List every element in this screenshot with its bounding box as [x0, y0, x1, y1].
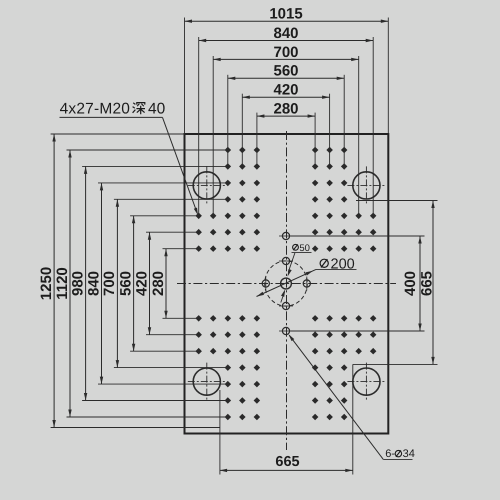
svg-text:400: 400 — [402, 271, 419, 296]
svg-text:420: 420 — [273, 82, 298, 99]
extension line plate right corner — [387, 18, 389, 135]
extension line row y=318.3 — [163, 317, 199, 319]
left dimension 700 — [101, 199, 119, 367]
svg-text:200: 200 — [331, 256, 355, 272]
extension line row y=232.2 — [146, 231, 199, 233]
left dimension 280 — [150, 249, 168, 319]
Ø34 hole on bolt circle right — [303, 280, 310, 287]
leader Ø50 lower — [281, 289, 285, 302]
svg-text:665: 665 — [275, 454, 299, 470]
extension line col x=213.2 — [212, 56, 214, 216]
guide hole circle top-left — [188, 166, 226, 204]
svg-text:665: 665 — [419, 271, 436, 296]
extension line row y=215.8 — [130, 215, 199, 217]
bolt circle Ø200 (dashed) — [265, 261, 308, 306]
left dimension 840 — [85, 183, 103, 384]
svg-text:4x27-M20: 4x27-M20 — [60, 100, 131, 117]
guide hole circle bottom-right — [347, 363, 385, 401]
plate outline (platen) — [185, 134, 389, 434]
svg-text:560: 560 — [273, 63, 298, 80]
extension line lower Ø50 to 400 — [291, 330, 425, 332]
extension line row y=400.5 — [82, 400, 228, 402]
extension line col x=329.6 — [329, 94, 331, 167]
svg-text:40: 40 — [148, 100, 166, 117]
horizontal centerline — [177, 283, 396, 285]
svg-text:280: 280 — [273, 101, 298, 118]
extension line col x=358.7 — [358, 56, 360, 216]
leader Ø50 upper — [288, 253, 296, 277]
extension line row y=248.7 — [163, 248, 199, 250]
tick on right Ø34 hole — [306, 277, 308, 291]
svg-text:420: 420 — [133, 271, 150, 296]
tick on top Ø34 hole — [279, 260, 293, 262]
tick on left Ø34 hole — [265, 277, 267, 291]
top dimension 560 — [228, 63, 344, 80]
label 4x27-M20 deep 40 — [60, 100, 166, 117]
Ø34 hole on bolt circle bottom — [282, 302, 289, 309]
leader Ø200 diameter line — [257, 269, 317, 296]
left dimension 980 — [69, 166, 87, 400]
svg-text:1250: 1250 — [38, 267, 55, 300]
ejector hole upper Ø50 — [282, 232, 289, 239]
left dimension 1250 — [38, 134, 56, 428]
tick on upper Ø50 hole — [279, 235, 293, 237]
tick on lower Ø50 hole — [279, 330, 293, 332]
extension line row y=150.0 — [67, 149, 228, 151]
extension tick 665 bottom vertical — [352, 364, 354, 433]
extension line col x=198.7 — [198, 37, 200, 216]
svg-text:700: 700 — [101, 271, 118, 296]
extension line row y=199.3 — [114, 198, 228, 200]
Ø34 hole on bolt circle top — [282, 257, 289, 264]
svg-text:34: 34 — [403, 448, 415, 460]
label 6-Ø34 — [383, 448, 415, 460]
extension line col x=227.8 — [227, 75, 229, 167]
guide hole circle bottom-left — [188, 363, 226, 401]
svg-text:980: 980 — [69, 271, 86, 296]
left dimension 560 — [117, 216, 135, 351]
extension line bottom 665 left — [219, 390, 221, 475]
extension line row y=384.1 — [98, 383, 228, 385]
tick on bottom Ø34 hole — [279, 305, 293, 307]
svg-text:840: 840 — [85, 271, 102, 296]
top dimension 420 — [242, 82, 329, 99]
extension line row y=417.0 — [67, 416, 228, 418]
svg-text:6-: 6- — [385, 448, 395, 460]
right dimension 400 — [402, 236, 422, 331]
top dimension 280 — [257, 101, 315, 118]
svg-text:560: 560 — [117, 271, 134, 296]
left dimension 420 — [133, 232, 151, 335]
extension line bottom 665 right — [352, 434, 354, 475]
top dimension 1015 — [185, 6, 389, 23]
extension line col x=242.3 — [241, 94, 243, 167]
vertical centerline — [286, 131, 288, 450]
center hole Ø50 — [281, 278, 292, 289]
extension line row y=351.2 — [130, 350, 199, 352]
svg-text:280: 280 — [150, 271, 167, 296]
svg-text:700: 700 — [273, 44, 298, 61]
extension line 1250 top — [51, 133, 185, 135]
leader 6-Ø34 — [288, 334, 383, 459]
right dimension 665 — [419, 201, 436, 365]
extension line row y=334.7 — [146, 334, 199, 336]
svg-text:1120: 1120 — [54, 267, 71, 300]
extension line col x=344.2 — [343, 75, 345, 167]
extension line row y=166.4 — [82, 165, 228, 167]
label Ø200 — [316, 256, 357, 272]
extension line 665 top — [356, 200, 438, 202]
extension line col x=373.2 — [372, 37, 374, 216]
Ø34 hole on bolt circle left — [262, 280, 269, 287]
extension line row y=182.9 — [98, 182, 228, 184]
extension line upper Ø50 to 400 — [291, 235, 425, 237]
top dimension 840 — [199, 25, 374, 42]
left dimension 1120 — [54, 150, 72, 417]
extension line plate left corner — [184, 18, 186, 135]
extension line col x=315.1 — [314, 113, 316, 167]
extension line 665 bottom — [353, 363, 438, 365]
extension line col x=256.9 — [256, 113, 258, 167]
tapped hole grid 4x27-M20 (diamond markers) — [195, 147, 376, 420]
extension line row y=367.6 — [114, 367, 228, 369]
leader 4x27-M20 — [163, 117, 199, 215]
top dimension 700 — [213, 44, 359, 61]
extension line 1250 bottom — [51, 427, 220, 429]
label Ø50 — [292, 243, 312, 254]
guide hole circle top-right — [347, 166, 385, 204]
ejector hole lower Ø50 (6-Ø34 target) — [282, 327, 289, 334]
svg-text:1015: 1015 — [269, 6, 302, 23]
svg-text:840: 840 — [273, 25, 298, 42]
bottom dimension 665 — [220, 454, 353, 472]
